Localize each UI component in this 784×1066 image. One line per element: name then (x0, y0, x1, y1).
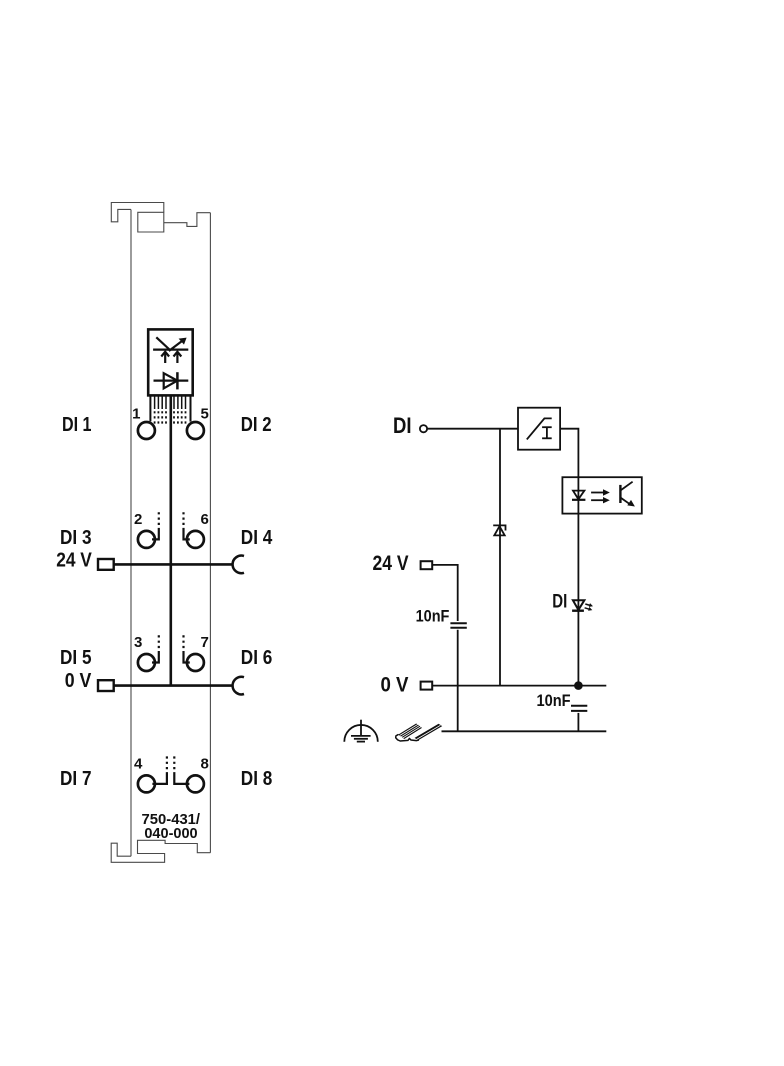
LED up arrow left (161, 352, 169, 363)
filter I symbol (542, 427, 552, 438)
capacitor C1 (450, 623, 466, 628)
optocoupler phototransistor Q1 (619, 485, 621, 503)
svg-text:DI 8: DI 8 (241, 768, 272, 790)
svg-text:DI 6: DI 6 (241, 647, 272, 669)
svg-text:DI 7: DI 7 (60, 768, 92, 790)
LED arrow (169, 340, 183, 351)
terminal 6 (184, 511, 209, 548)
svg-text:2: 2 (134, 511, 142, 528)
0V pass-through contact (233, 677, 244, 695)
svg-text:DI 5: DI 5 (60, 647, 92, 669)
0V wire (432, 685, 606, 687)
comb dotted matrix (155, 411, 186, 424)
diode D1 in LED block (154, 372, 189, 389)
svg-text:10nF: 10nF (537, 692, 571, 710)
earth ground symbol (344, 720, 378, 742)
wire capacitor to rail (457, 630, 459, 732)
wire capacitor C2 to rail (577, 713, 579, 731)
LED emission arrows (585, 604, 591, 609)
optocoupler light arrows (591, 493, 604, 501)
filter slope symbol (527, 418, 552, 439)
DIN rail symbol (396, 724, 443, 742)
module outline top (111, 203, 210, 233)
wire filter to optocoupler (560, 429, 578, 478)
rail wire (442, 730, 607, 732)
svg-text:8: 8 (201, 755, 209, 772)
terminal 2 (134, 511, 159, 548)
svg-text:DI 2: DI 2 (241, 414, 272, 436)
svg-text:DI 1: DI 1 (62, 414, 92, 436)
svg-text:DI 4: DI 4 (241, 527, 273, 549)
module outline bottom (111, 840, 210, 862)
optocoupler box U3 (562, 477, 641, 513)
module body left edge (130, 210, 132, 857)
svg-text:040-000: 040-000 (144, 826, 197, 842)
svg-text:0 V: 0 V (381, 674, 409, 697)
0V terminal square right (421, 682, 433, 690)
input filter box U2 (518, 408, 560, 450)
zener diode Z1 (493, 525, 505, 535)
svg-text:4: 4 (134, 755, 143, 772)
svg-text:3: 3 (134, 634, 142, 651)
wire junction drop to zener (499, 429, 501, 686)
wire DI to filter (427, 428, 518, 430)
terminal 4 (134, 755, 167, 792)
svg-text:DI: DI (552, 591, 567, 612)
24V pass-through contact (233, 556, 244, 574)
optocoupler LED (572, 491, 585, 500)
internal bus wire (170, 395, 173, 685)
wire 24V to capacitor (432, 565, 458, 621)
comb wires below LED block (150, 395, 190, 421)
svg-text:7: 7 (201, 634, 209, 651)
24V terminal square right (421, 561, 433, 569)
LED pair symbol bar (153, 337, 188, 350)
terminal 5 (187, 405, 209, 439)
svg-text:0 V: 0 V (65, 670, 92, 692)
svg-text:DI 3: DI 3 (60, 527, 92, 549)
terminal 8 (174, 755, 209, 792)
svg-text:1: 1 (132, 405, 140, 422)
LED block U1 (148, 329, 193, 395)
terminal 3 (134, 634, 159, 671)
terminal 7 (184, 634, 209, 671)
junction node (574, 681, 583, 690)
LED up arrow right (174, 352, 182, 363)
svg-text:24 V: 24 V (56, 550, 92, 572)
24V feed wire (114, 563, 233, 566)
svg-text:24 V: 24 V (373, 552, 409, 575)
status LED DI (572, 600, 584, 611)
DI input terminal (420, 425, 427, 432)
0V feed terminal square (98, 680, 114, 691)
svg-text:5: 5 (201, 405, 209, 422)
24V feed terminal square (98, 559, 114, 570)
svg-text:6: 6 (201, 511, 209, 528)
module body right edge (209, 213, 211, 853)
capacitor C2 (571, 706, 587, 711)
wire optocoupler to LED (577, 477, 579, 685)
svg-text:10nF: 10nF (416, 608, 450, 626)
terminal 1 (132, 405, 155, 439)
0V feed wire (114, 684, 233, 687)
svg-text:DI: DI (393, 413, 412, 438)
